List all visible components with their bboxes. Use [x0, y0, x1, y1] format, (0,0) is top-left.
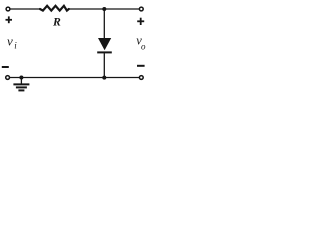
plus top-left: [6, 16, 13, 23]
diode D1 cathode bar: [97, 51, 112, 53]
svg-text:v: v: [7, 34, 13, 49]
wire top-left to resistor: [10, 8, 40, 10]
wire diode to bottom junction: [103, 53, 105, 77]
terminal bottom-right: [139, 76, 143, 80]
diode D1 anode triangle: [98, 38, 111, 50]
node ground tap: [19, 76, 23, 80]
terminal bottom-left: [6, 76, 10, 80]
svg-text:i: i: [14, 40, 17, 50]
wire resistor to top-right: [69, 8, 140, 10]
node junction bottom: [102, 76, 106, 80]
wire junction down to diode: [103, 9, 105, 38]
node junction top: [102, 7, 106, 11]
minus bottom-right: [137, 65, 145, 67]
svg-text:o: o: [141, 42, 146, 52]
ground: [13, 78, 29, 91]
resistor R: [40, 6, 69, 11]
plus top-right: [137, 18, 144, 25]
terminal top-right: [139, 7, 143, 11]
wire bottom: [10, 77, 140, 79]
terminal top-left: [6, 7, 10, 11]
minus bottom-left: [2, 66, 9, 68]
svg-text:R: R: [52, 15, 61, 28]
